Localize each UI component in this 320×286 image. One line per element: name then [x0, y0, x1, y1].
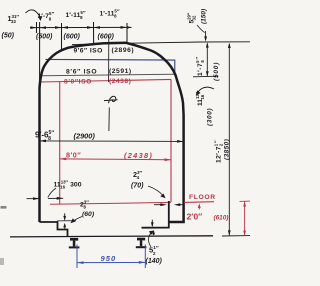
- bottom-right step post: [142, 201, 169, 228]
- svg-text:(140): (140): [146, 258, 163, 265]
- svg-text:9′6″ ISO: 9′6″ ISO: [74, 48, 103, 55]
- svg-text:(3850): (3850): [224, 139, 231, 160]
- 9'-6 5/8" (2900) dimension: [40, 140, 184, 143]
- svg-text:(500): (500): [36, 34, 53, 41]
- svg-text:(2438): (2438): [124, 151, 153, 160]
- 8'0" (2438) red dimension: [60, 158, 171, 161]
- leader for 140: [148, 232, 152, 247]
- svg-text:12′-712″: 12′-712″: [214, 140, 224, 163]
- svg-text:(500): (500): [213, 62, 220, 81]
- svg-text:8′0″: 8′0″: [66, 151, 81, 160]
- centre line symbol: [104, 96, 118, 103]
- 8'6" ISO blue line: [46, 59, 175, 75]
- svg-text:(2591): (2591): [109, 68, 132, 75]
- svg-text:FLOOR: FLOOR: [189, 194, 216, 201]
- svg-text:(600): (600): [98, 34, 115, 41]
- svg-text:(2438): (2438): [109, 78, 131, 85]
- label 1 31/32" (50): [2, 14, 20, 40]
- floor pointer arrow: [198, 205, 200, 209]
- 150 pointer: [197, 25, 205, 33]
- svg-text:(60): (60): [82, 211, 95, 218]
- leader for (60): [73, 217, 83, 222]
- 70 arrows: [154, 204, 161, 206]
- svg-text:950: 950: [101, 254, 117, 263]
- right rail: [136, 238, 147, 249]
- svg-text:(2900): (2900): [74, 132, 96, 141]
- top dimension ticks: [37, 22, 128, 81]
- svg-text:(300): (300): [207, 108, 214, 126]
- red container box: [41, 79, 172, 203]
- paper background: [0, 0, 250, 286]
- centre line vertical: [108, 108, 110, 132]
- 140 arrows: [151, 220, 153, 226]
- small step reference line and arrows: [57, 220, 76, 222]
- centre line upper segment: [108, 36, 110, 82]
- 610 dimension at right: [240, 200, 251, 202]
- leader for (70): [148, 186, 164, 196]
- svg-text:8′6″ ISO: 8′6″ ISO: [66, 69, 97, 76]
- floor line right segment: [184, 201, 214, 204]
- svg-text:(50): (50): [2, 33, 15, 40]
- 300 dimension arrows: [27, 198, 40, 200]
- top dimension arrowheads: [31, 26, 132, 29]
- 9'6" ISO level line: [72, 42, 250, 45]
- svg-text:(70): (70): [131, 183, 144, 190]
- top dimension line: [30, 26, 132, 28]
- leader for 300: [48, 188, 56, 198]
- 950 gauge dimension (blue): [77, 245, 145, 269]
- svg-text:(2896): (2896): [112, 47, 135, 54]
- bottom-left step of profile: [40, 222, 68, 236]
- red floor line inside box: [50, 202, 171, 204]
- left rail: [69, 238, 80, 249]
- structure gauge profile: [40, 43, 184, 236]
- 8'0" level line: [42, 74, 174, 75]
- svg-text:(610): (610): [214, 215, 229, 222]
- svg-text:(600): (600): [64, 34, 81, 41]
- 12'-7 7/8" (3850) overall height dimension: [228, 44, 230, 235]
- leader arc for (50): [26, 10, 40, 16]
- 1'-7 5/8" (500) vertical dimension: [206, 44, 208, 77]
- svg-text:(150): (150): [201, 9, 208, 24]
- svg-text:2′0″: 2′0″: [187, 212, 203, 222]
- rail level line: [10, 236, 213, 237]
